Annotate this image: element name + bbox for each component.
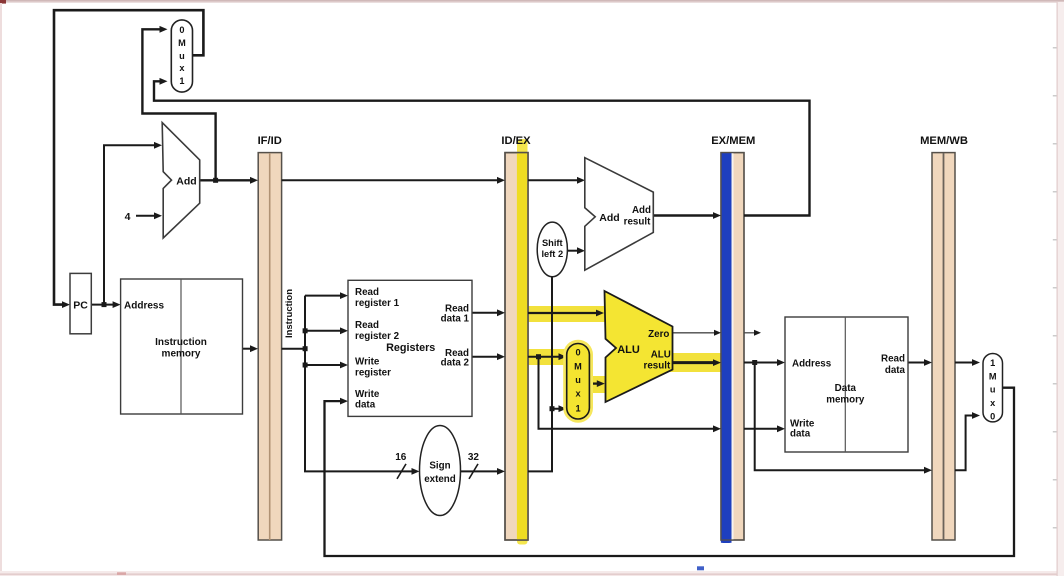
wire: PC to instruction memory address and up to Add — [91, 145, 156, 304]
svg-text:1: 1 — [990, 358, 995, 368]
svg-text:Read: Read — [355, 320, 379, 331]
svg-text:MEM/WB: MEM/WB — [920, 135, 968, 147]
svg-text:Sign: Sign — [429, 461, 450, 472]
svg-text:u: u — [990, 385, 996, 395]
pipeline register EX/MEM — [711, 135, 755, 543]
mux ALU source (highlighted) — [563, 340, 593, 423]
highlight band: read data 1 to ALU — [524, 306, 606, 322]
wire: branch target loop from EX/MEM to mux input 1 — [154, 81, 810, 215]
wire: zero stub right of EX/MEM — [744, 332, 755, 334]
highlight band: read data 2 to mux — [524, 349, 568, 365]
ALU (highlighted) — [605, 291, 673, 402]
highlight stub below EX/MEM blue half — [721, 536, 732, 543]
wire: read data 1 to ID/EX — [472, 312, 499, 314]
svg-text:u: u — [179, 51, 185, 61]
wire: ALU zero to EX/MEM — [673, 332, 716, 334]
svg-text:M: M — [574, 361, 582, 371]
svg-text:x: x — [575, 389, 581, 399]
svg-text:data: data — [355, 400, 376, 411]
wire: sign extended value through ID/EX up to shift left 2 and to mux input 1 — [528, 277, 561, 471]
svg-text:x: x — [179, 63, 185, 73]
svg-text:left 2: left 2 — [541, 249, 563, 259]
wire: write-back loop from right mux to register write data — [325, 388, 1015, 556]
svg-text:IF/ID: IF/ID — [258, 135, 282, 147]
highlight band: mux output to ALU — [587, 376, 606, 393]
wire: shift left 2 output to Add — [567, 250, 579, 252]
junction dots — [102, 178, 758, 411]
arrowheads — [62, 26, 980, 475]
wire: Add output PC+4 to IF/ID — [200, 179, 252, 181]
svg-text:ALU: ALU — [617, 344, 640, 356]
highlight band: ALU result to EX/MEM — [670, 353, 722, 372]
highlight stub below ID/EX yellow half — [517, 536, 528, 545]
wire: MEM/WB bypass to right mux input 0 — [955, 416, 974, 471]
svg-text:Write: Write — [355, 357, 380, 368]
svg-text:0: 0 — [179, 25, 184, 35]
wire: constant 4 into Add — [136, 215, 156, 217]
svg-text:register 2: register 2 — [355, 331, 400, 342]
svg-text:x: x — [990, 398, 996, 408]
svg-text:data: data — [885, 365, 906, 376]
svg-text:ID/EX: ID/EX — [501, 135, 531, 147]
shift left 2 ellipse — [537, 222, 567, 277]
svg-text:0: 0 — [575, 348, 580, 358]
wire: MEM/WB to right mux input 1 — [955, 362, 974, 364]
svg-text:32: 32 — [468, 452, 480, 463]
wire: EX/MEM to data memory address and down to MEM/WB bypass — [744, 363, 926, 471]
svg-text:Add: Add — [176, 175, 196, 187]
register file box — [348, 280, 472, 416]
bit width 16 slash and label — [395, 452, 407, 479]
wire: EX/MEM to data memory write data — [744, 428, 779, 430]
instruction memory box — [121, 279, 243, 414]
adder Add (PC+4) — [162, 123, 200, 238]
svg-text:Instruction: Instruction — [155, 337, 207, 348]
svg-text:EX/MEM: EX/MEM — [711, 135, 755, 147]
svg-text:Add: Add — [599, 212, 619, 224]
svg-text:Registers: Registers — [386, 342, 435, 354]
svg-text:0: 0 — [990, 411, 995, 421]
page frame right border — [1053, 2, 1064, 576]
svg-text:M: M — [178, 38, 186, 48]
svg-text:Write: Write — [355, 389, 380, 400]
svg-text:memory: memory — [162, 349, 201, 360]
svg-text:Address: Address — [792, 358, 832, 369]
wire: read data 2 to ID/EX — [472, 356, 499, 358]
mux write-back (1/0) — [983, 354, 1003, 422]
svg-text:Instruction: Instruction — [284, 289, 295, 338]
PC box — [70, 273, 91, 333]
wire: ALU result to EX/MEM — [673, 361, 716, 364]
wire: instruction memory output to IF/ID — [243, 348, 253, 350]
mux top-left (0/1) — [171, 20, 192, 92]
svg-text:Address: Address — [124, 301, 164, 312]
wire: instruction distribution from IF/ID to register file and sign extend — [282, 296, 413, 472]
page frame left border — [0, 3, 2, 576]
pipeline register ID/EX — [501, 135, 531, 540]
svg-text:Zero: Zero — [648, 329, 669, 340]
pipeline register IF/ID — [258, 135, 282, 540]
page frame top border — [0, 0, 1064, 4]
page frame bottom border — [0, 566, 1064, 576]
wire: Add result to EX/MEM — [653, 214, 715, 216]
svg-text:extend: extend — [424, 474, 456, 485]
wire: read data 2 from ID/EX to mux and down to EX/MEM write data — [528, 357, 715, 429]
wire: mux output to ALU lower input — [589, 382, 599, 384]
svg-text:M: M — [989, 371, 997, 381]
wire: PC+4 from IF/ID to ID/EX — [282, 179, 499, 181]
svg-text:Shift: Shift — [542, 238, 563, 248]
pipeline register MEM/WB — [920, 135, 968, 540]
svg-text:memory: memory — [826, 394, 865, 405]
svg-text:result: result — [624, 217, 651, 228]
sign extend ellipse — [420, 426, 461, 516]
svg-text:Read: Read — [881, 354, 905, 365]
wire: sign extend output to ID/EX — [461, 470, 500, 472]
svg-text:PC: PC — [73, 300, 88, 312]
wire: PC feedback loop from mux output to PC — [54, 10, 203, 304]
wire: read data 1 from ID/EX to ALU — [528, 312, 598, 314]
svg-text:register: register — [355, 368, 391, 379]
svg-text:Read: Read — [355, 287, 379, 298]
adder Add (branch target) — [585, 158, 654, 271]
svg-text:Write: Write — [790, 418, 815, 429]
svg-text:result: result — [644, 361, 671, 372]
svg-text:4: 4 — [125, 211, 131, 223]
svg-text:Data: Data — [835, 383, 857, 394]
wire: data memory read data to MEM/WB — [908, 362, 926, 364]
svg-text:1: 1 — [575, 404, 580, 414]
bit width 32 slash and label — [468, 452, 480, 479]
svg-text:ALU: ALU — [651, 349, 671, 360]
svg-text:data: data — [790, 429, 811, 440]
svg-text:1: 1 — [179, 76, 184, 86]
svg-text:register 1: register 1 — [355, 298, 400, 309]
svg-text:data 1: data 1 — [441, 313, 470, 324]
wire: PC+4 loop to mux input 0 — [142, 29, 215, 180]
svg-text:16: 16 — [395, 452, 407, 463]
wire: PC+4 from ID/EX to Add — [528, 179, 579, 181]
svg-text:data 2: data 2 — [441, 357, 470, 368]
svg-text:Add: Add — [632, 205, 651, 216]
data memory box — [785, 317, 908, 452]
highlight stub above ID/EX yellow half — [517, 139, 528, 155]
svg-text:u: u — [575, 375, 581, 385]
